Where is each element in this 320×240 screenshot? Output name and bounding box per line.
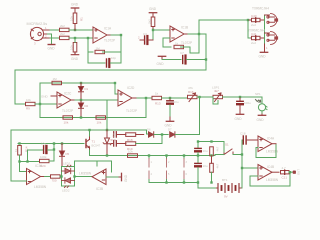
svg-text:750: 750: [52, 179, 57, 183]
wire long rail from IC1A stage to mid-left: [15, 60, 206, 105]
diode D2: [79, 100, 84, 118]
svg-text:C7: C7: [180, 51, 184, 55]
svg-text:10p: 10p: [111, 56, 116, 60]
svg-text:GND: GND: [124, 174, 128, 182]
svg-text:10k: 10k: [26, 98, 31, 102]
node junction row1/row2: [161, 133, 163, 135]
svg-text:TL072P: TL072P: [62, 109, 73, 113]
resistor R13: [152, 96, 162, 99]
node junction R2/R1: [74, 29, 76, 31]
svg-text:IC1A: IC1A: [104, 27, 112, 31]
transistor T1: [89, 130, 91, 137]
wire speaker to ground: [261, 111, 263, 115]
svg-text:4k7: 4k7: [216, 163, 220, 168]
ground GND right of IC3B rotated: [119, 173, 122, 180]
node junction caps mid: [197, 154, 199, 156]
svg-text:LM358N: LM358N: [266, 150, 279, 154]
wire IC1B output: [184, 33, 188, 35]
wire IC4B +in from x242: [242, 167, 258, 169]
svg-text:TXRMCJH4: TXRMCJH4: [252, 7, 269, 11]
svg-text:100u: 100u: [244, 101, 251, 105]
svg-text:D5: D5: [66, 152, 70, 156]
svg-text:LM358N: LM358N: [79, 172, 92, 176]
node junction top row x211.5: [210, 140, 212, 142]
svg-text:10k: 10k: [70, 45, 74, 50]
capacitor C16 row1: [114, 132, 117, 137]
resistor R1 vertical: [73, 13, 77, 30]
wire C15 left leg: [27, 150, 29, 162]
wire mic pin1 to R2: [50, 29, 60, 31]
svg-text:TL072P: TL072P: [126, 109, 137, 113]
svg-text:IC4B: IC4B: [267, 165, 274, 169]
op-amp IC2B: [118, 90, 132, 106]
resistor R12: [96, 116, 106, 119]
node jack row split: [247, 19, 249, 21]
wire supply top row y141.5: [198, 142, 224, 153]
svg-text:R13: R13: [155, 102, 161, 106]
wire mic pin2 to GND: [48, 34, 52, 44]
ground GND below R4: [71, 52, 78, 55]
capacitor C7: [183, 56, 186, 64]
resistor R21: [51, 175, 61, 178]
resistor R5 feedback: [95, 50, 105, 53]
wire IC2A out: [71, 99, 75, 101]
wire row2 to junction: [136, 135, 162, 144]
wire R3 to IC1A -in: [69, 37, 93, 39]
op-amp IC4B: [258, 165, 272, 181]
wire IC1B +in leg: [163, 37, 170, 39]
svg-text:10u: 10u: [41, 142, 46, 146]
trimmer R17 volume: [213, 93, 223, 102]
svg-text:33n: 33n: [112, 132, 116, 137]
resistor R23 divider lower: [210, 156, 214, 173]
wire IC4A output stub: [272, 143, 276, 145]
resistor R18 row1: [126, 133, 144, 137]
ground GND at mic: [48, 44, 55, 46]
svg-text:OUT: OUT: [297, 169, 301, 175]
wire feedback bottom row: [88, 62, 105, 64]
header JP1 pins column2: [165, 154, 167, 156]
svg-text:10u: 10u: [174, 100, 179, 104]
svg-text:GND: GND: [71, 3, 79, 7]
svg-text:2k2: 2k2: [60, 24, 65, 28]
svg-text:GND: GND: [257, 118, 265, 122]
wire IC3A -in row: [11, 180, 27, 182]
wire rail3 y155.5: [90, 155, 216, 157]
capacitor C15 polarized: [44, 146, 47, 154]
wire right leg x54: [53, 144, 55, 162]
wire C3 vertical link: [152, 30, 154, 40]
node junction C10: [169, 97, 171, 99]
wire IC1A output: [107, 34, 111, 36]
svg-text:TL072P: TL072P: [104, 39, 115, 43]
svg-text:10k: 10k: [97, 121, 102, 125]
svg-text:GND: GND: [157, 62, 165, 66]
wire JP bottom rail to cap leg: [184, 182, 198, 184]
supply GND symbol above R1: [71, 8, 78, 13]
wire IC3B right to ground: [106, 176, 119, 178]
capacitor C21 output boxed: [281, 170, 290, 174]
resistor R3: [60, 36, 70, 39]
speaker SP1: [261, 97, 263, 104]
svg-text:2u2: 2u2: [251, 41, 256, 45]
node junction R14 top: [18, 142, 20, 144]
wire junction to IC1B -in: [153, 29, 170, 31]
capacitor C18: [242, 139, 243, 141]
node junction zener top: [106, 129, 108, 131]
svg-text:D6: D6: [147, 128, 151, 132]
resistor R19 row2: [126, 142, 136, 146]
supply GND symbol above R6: [149, 13, 156, 17]
wire IC4A feedback loop: [256, 144, 276, 157]
svg-text:TXRMCJH4: TXRMCJH4: [248, 29, 265, 33]
wire LED loop rectangle: [62, 167, 75, 187]
node junction IC2B out feedback: [145, 97, 147, 99]
svg-text:2k2: 2k2: [148, 19, 152, 24]
node junctions LED loop: [60, 175, 62, 177]
node IC1A output junction: [120, 34, 122, 36]
wire output junction down leg: [198, 34, 200, 53]
ground GND below jacks: [260, 51, 267, 53]
node junction switch out: [241, 153, 243, 155]
wire output up to jack row: [199, 20, 248, 34]
wire drop from pot row to diode row: [199, 97, 201, 134]
svg-text:4.7: 4.7: [282, 166, 287, 170]
capacitor C12 boxed: [249, 18, 265, 22]
svg-text:IC4A: IC4A: [267, 137, 275, 141]
pin jack sleeve to ground: [264, 44, 266, 52]
capacitor C20 polarized lower: [195, 163, 201, 166]
svg-text:4k7: 4k7: [216, 146, 220, 151]
op-amp IC2A: [57, 92, 71, 108]
svg-text:10k: 10k: [128, 150, 133, 154]
wire feedback left leg x40: [39, 83, 41, 118]
svg-text:1M: 1M: [53, 77, 58, 81]
svg-text:LM358N: LM358N: [34, 185, 47, 189]
node junction IC4B in tap: [241, 167, 243, 169]
svg-text:LM358N: LM358N: [266, 178, 279, 182]
svg-text:C40: C40: [251, 14, 257, 18]
ground GND below C11: [236, 113, 243, 115]
svg-text:2k2: 2k2: [60, 32, 65, 36]
node junction top rail x115: [114, 82, 116, 84]
node junction diodes mid / IC2A out: [80, 99, 82, 101]
op-amp IC3A: [27, 169, 41, 185]
wire R2 to IC1A +in: [69, 29, 93, 31]
diode D6 row1: [149, 132, 154, 137]
svg-text:D7: D7: [168, 128, 172, 132]
capacitor C4 feedback: [107, 59, 110, 67]
node junction x54: [53, 142, 55, 144]
diode D1: [79, 83, 84, 100]
svg-text:TL072P: TL072P: [181, 41, 192, 45]
wire mic pin3 to R3: [50, 37, 60, 39]
wire IC3A output: [41, 176, 45, 178]
connector X1 microphone jack MICPAV2.5: [30, 27, 50, 40]
resistor R6 vertical: [151, 17, 155, 30]
svg-text:4k7: 4k7: [214, 89, 219, 93]
wire feedback top rail y83: [40, 82, 115, 84]
header JP1 pins column1: [148, 154, 150, 156]
svg-text:IC1B: IC1B: [181, 26, 188, 30]
svg-text:9V: 9V: [224, 195, 228, 199]
svg-text:1k: 1k: [175, 41, 179, 45]
wire IC4B output: [272, 171, 279, 173]
capacitor C10 polarized: [167, 99, 173, 121]
svg-text:C41: C41: [251, 32, 257, 36]
capacitor C19 polarized upper: [195, 148, 201, 151]
resistor R2: [60, 28, 70, 31]
wire rail y143 base row: [18, 143, 84, 145]
svg-text:LED2: LED2: [62, 189, 70, 193]
svg-text:1k: 1k: [14, 148, 18, 152]
node junction D5 top: [61, 142, 63, 144]
svg-text:R9: R9: [26, 107, 30, 111]
svg-text:2u2: 2u2: [251, 23, 256, 27]
wire IC1A output down leg: [120, 35, 122, 63]
node junction R6 / C3 / IC1B: [152, 29, 154, 31]
wire IC2B output: [132, 97, 137, 99]
svg-text:LED1: LED1: [63, 162, 71, 166]
node junction -in / feedback: [87, 37, 89, 39]
capacitor C17 row2: [114, 141, 117, 146]
diode D5: [60, 144, 65, 167]
resistor R20 rail3: [128, 154, 138, 158]
diode D7 row1: [170, 132, 175, 137]
wire LED top to IC3B +in loop: [75, 161, 98, 167]
svg-text:D1: D1: [85, 87, 89, 91]
pin output flag: [293, 171, 295, 173]
svg-text:1k: 1k: [155, 92, 159, 96]
wire R14 bottom to LED row: [20, 155, 27, 172]
wire LED mid to IC3B: [75, 176, 93, 178]
svg-text:R16: R16: [188, 90, 194, 94]
op-amp IC1A: [93, 27, 107, 43]
wire split down to second jack: [248, 20, 251, 38]
node IC1B output junction: [198, 33, 200, 35]
wire IC4B feedback loop: [250, 172, 290, 186]
svg-text:GND: GND: [235, 117, 243, 121]
svg-text:10k: 10k: [64, 121, 69, 125]
wire JP1 bottom rail: [149, 182, 184, 184]
wire feedback bottom rail y117.5: [40, 117, 146, 119]
node junction divider mid: [210, 154, 212, 156]
wire jack1 sleeve rail: [264, 15, 266, 44]
svg-text:C3: C3: [143, 32, 147, 36]
resistor R4 vertical to GND: [73, 43, 77, 53]
svg-text:100k: 100k: [40, 155, 47, 159]
capacitor C3 input: [145, 36, 148, 44]
svg-text:GND: GND: [149, 7, 157, 11]
node junction zener bottom: [106, 154, 108, 156]
wire divider bottom to battery row: [211, 172, 213, 182]
node junction R3 / R4 divider: [74, 37, 76, 39]
resistor R24: [40, 159, 50, 162]
svg-text:GND: GND: [41, 95, 49, 99]
resistor R9 input: [26, 102, 36, 105]
wire IC2B -in leg down: [106, 100, 108, 130]
svg-text:GND: GND: [48, 47, 56, 51]
wire rail y130: [11, 129, 147, 131]
svg-text:C18: C18: [240, 132, 246, 136]
op-amp IC4A: [258, 136, 272, 152]
wire battery plus up right leg x242: [241, 140, 243, 188]
svg-text:1M: 1M: [96, 46, 101, 50]
wire rail130 drop to row1: [147, 130, 149, 134]
wire feedback corner to output leg: [190, 47, 199, 53]
zener D4: [103, 130, 111, 156]
svg-text:IC2D: IC2D: [127, 86, 135, 90]
ground GND left of C7: [158, 56, 165, 59]
resistor R22 divider upper: [210, 147, 214, 156]
capacitor C13 boxed: [251, 36, 265, 40]
wire T1 emitter to rail3: [89, 150, 91, 156]
node junction diodes top: [80, 82, 82, 84]
wire GND row: [162, 59, 181, 61]
led LED2: [62, 178, 75, 188]
node junction T1 collector on rail: [88, 129, 90, 131]
svg-text:BT1: BT1: [222, 178, 228, 182]
svg-text:IC3B: IC3B: [96, 187, 103, 191]
pin IC2A +in stub: [51, 95, 57, 97]
svg-text:BC547: BC547: [92, 144, 101, 148]
capacitor C11 polarized: [237, 98, 243, 114]
svg-text:S1: S1: [225, 143, 229, 147]
svg-text:10u: 10u: [203, 164, 208, 168]
node junction R9 / feedback leg: [39, 103, 41, 105]
header JP1 pins column3: [183, 154, 185, 156]
wire cap bottom to battery row: [198, 168, 217, 189]
resistor R7 feedback: [174, 45, 184, 48]
node junction loop/output: [289, 171, 291, 173]
svg-text:IC3A: IC3A: [35, 164, 43, 168]
led LED1: [62, 165, 75, 174]
svg-text:GND: GND: [259, 55, 267, 59]
svg-text:10u: 10u: [203, 149, 208, 153]
ground GND below C10: [166, 120, 173, 122]
wire IC1B out right leg down: [199, 34, 206, 60]
node junction diodes bottom: [80, 116, 82, 118]
svg-text:IC2C: IC2C: [64, 92, 72, 96]
svg-text:C21: C21: [282, 176, 288, 180]
resistor R11: [63, 116, 73, 119]
wire feedback left leg: [87, 38, 89, 63]
op-amp IC3B mirrored: [92, 169, 106, 185]
battery BT1: [218, 184, 239, 193]
svg-text:10k: 10k: [70, 16, 74, 21]
resistor R10 feedback: [52, 81, 62, 84]
svg-text:D2: D2: [85, 104, 89, 108]
ground GND below speaker: [258, 114, 265, 115]
svg-text:SP1: SP1: [255, 92, 261, 96]
svg-text:GND: GND: [71, 57, 79, 61]
node junction pot drop: [198, 96, 200, 98]
op-amp IC1B: [170, 26, 184, 42]
wire IC2B +in from top rail: [115, 83, 118, 94]
node junction C11: [239, 96, 241, 98]
wire feedback top row: [88, 51, 93, 53]
trimmer R16: [188, 93, 198, 102]
wire feedback right leg x146: [145, 98, 147, 118]
wire IC3B feedback loop: [96, 161, 98, 166]
resistor R14 vertical: [18, 146, 22, 156]
svg-text:R1: R1: [80, 17, 84, 21]
wire left leg x11 down: [11, 130, 27, 181]
wire mid-left input row: [15, 103, 26, 105]
wire pot wiper loop: [213, 97, 218, 104]
